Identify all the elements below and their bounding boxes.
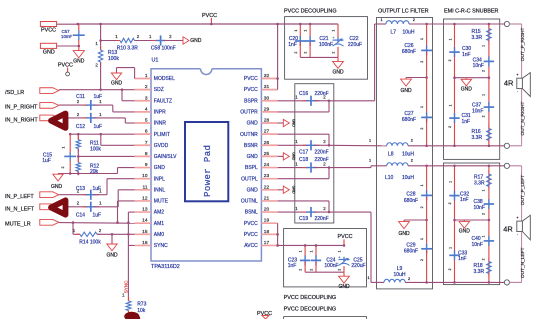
svg-text:3.3R: 3.3R <box>472 35 483 41</box>
svg-text:C58 100nF: C58 100nF <box>151 46 176 52</box>
svg-text:OUT_N_RIGHT: OUT_N_RIGHT <box>520 102 526 136</box>
svg-text:1: 1 <box>62 147 66 149</box>
svg-text:OUT_P_RIGHT: OUT_P_RIGHT <box>520 28 526 62</box>
svg-text:R14 100k: R14 100k <box>79 240 101 246</box>
svg-text:PVCC: PVCC <box>244 232 258 238</box>
svg-text:/SD_LR: /SD_LR <box>5 90 24 96</box>
svg-text:GND: GND <box>51 184 63 190</box>
svg-text:680nF: 680nF <box>404 249 418 255</box>
svg-text:100k: 100k <box>90 146 101 152</box>
svg-text:PVCC: PVCC <box>244 87 258 93</box>
svg-text:R73: R73 <box>137 302 146 308</box>
svg-text:1: 1 <box>482 94 486 96</box>
svg-text:1uF: 1uF <box>93 94 102 100</box>
svg-text:2: 2 <box>420 259 424 261</box>
svg-text:C27: C27 <box>404 111 413 117</box>
svg-text:BSNR: BSNR <box>244 143 258 149</box>
svg-text:GND: GND <box>332 69 344 75</box>
svg-text:680nF: 680nF <box>402 117 416 123</box>
svg-text:2: 2 <box>482 258 486 260</box>
svg-text:6: 6 <box>145 129 148 135</box>
svg-text:28: 28 <box>264 118 270 124</box>
svg-text:31: 31 <box>264 84 270 90</box>
svg-text:OUT_N_LEFT: OUT_N_LEFT <box>520 247 526 278</box>
svg-text:2: 2 <box>448 268 452 270</box>
svg-text:C14: C14 <box>76 212 85 218</box>
svg-text:29: 29 <box>264 106 270 112</box>
svg-text:2: 2 <box>448 59 452 61</box>
svg-text:OUTNL: OUTNL <box>241 199 258 205</box>
svg-text:1: 1 <box>381 18 383 22</box>
svg-text:20k: 20k <box>90 169 99 175</box>
svg-text:C18: C18 <box>299 157 308 163</box>
svg-text:1: 1 <box>482 45 486 47</box>
svg-text:GND: GND <box>247 154 259 160</box>
svg-text:AM1: AM1 <box>154 221 165 227</box>
svg-text:SYNC: SYNC <box>154 243 168 249</box>
svg-text:1: 1 <box>299 250 303 252</box>
svg-text:22: 22 <box>264 184 270 190</box>
svg-text:3.3R: 3.3R <box>472 135 483 141</box>
svg-text:220nF: 220nF <box>315 150 329 156</box>
svg-text:1: 1 <box>304 30 308 32</box>
svg-text:2: 2 <box>61 167 65 169</box>
svg-text:3: 3 <box>145 95 148 101</box>
svg-text:1nF: 1nF <box>462 119 471 125</box>
svg-text:1uF: 1uF <box>92 186 101 192</box>
svg-text:GND: GND <box>106 252 118 258</box>
svg-text:100k: 100k <box>108 56 119 62</box>
svg-text:10nF: 10nF <box>474 205 485 211</box>
svg-text:9: 9 <box>145 162 148 168</box>
svg-text:·: · <box>517 90 518 94</box>
svg-text:PVCC DECOUPLING: PVCC DECOUPLING <box>284 306 337 312</box>
svg-text:GVDD: GVDD <box>154 143 169 149</box>
svg-text:C28: C28 <box>406 192 415 198</box>
svg-text:1nF: 1nF <box>288 42 297 48</box>
svg-text:MUTE_LR: MUTE_LR <box>5 222 31 228</box>
svg-text:IN_N_LEFT: IN_N_LEFT <box>5 206 35 212</box>
svg-text:PVCC DECOUPLING: PVCC DECOUPLING <box>284 295 337 301</box>
svg-text:10uH: 10uH <box>403 29 415 35</box>
svg-text:2: 2 <box>482 115 486 117</box>
svg-text:BSPL: BSPL <box>245 165 258 171</box>
svg-text:680nF: 680nF <box>402 49 416 55</box>
svg-text:IN_P_RIGHT: IN_P_RIGHT <box>5 105 38 111</box>
svg-text:U1: U1 <box>152 58 159 64</box>
svg-text:10uH: 10uH <box>402 152 414 158</box>
svg-text:IN_P_LEFT: IN_P_LEFT <box>5 194 34 200</box>
svg-text:INNL: INNL <box>154 187 166 193</box>
svg-text:1: 1 <box>420 184 424 186</box>
svg-text:1: 1 <box>448 104 452 106</box>
svg-text:IN_N_RIGHT: IN_N_RIGHT <box>5 117 38 123</box>
svg-text:MODSEL: MODSEL <box>154 76 175 82</box>
svg-text:2: 2 <box>332 52 336 54</box>
svg-text:PVCC: PVCC <box>58 63 73 69</box>
svg-text:SDZ: SDZ <box>154 87 164 93</box>
svg-text:PVCC: PVCC <box>41 27 56 33</box>
svg-text:1: 1 <box>369 159 371 163</box>
svg-text:C11: C11 <box>76 94 85 100</box>
svg-text:OUT_P_LEFT: OUT_P_LEFT <box>520 175 526 205</box>
svg-text:1: 1 <box>420 106 424 108</box>
svg-text:GND: GND <box>292 186 296 194</box>
svg-text:L8: L8 <box>388 152 394 158</box>
svg-text:220uF: 220uF <box>351 263 365 269</box>
svg-text:2: 2 <box>411 138 413 142</box>
svg-text:SYNC: SYNC <box>124 280 129 293</box>
svg-text:2: 2 <box>448 126 452 128</box>
svg-text:INPL: INPL <box>154 176 165 182</box>
svg-text:7: 7 <box>145 140 148 146</box>
svg-text:GND: GND <box>292 119 296 127</box>
svg-text:23: 23 <box>264 173 270 179</box>
svg-text:2: 2 <box>294 52 298 54</box>
svg-text:L7: L7 <box>391 29 397 35</box>
svg-text:20: 20 <box>264 207 270 213</box>
svg-text:220nF: 220nF <box>315 157 329 163</box>
svg-text:1uF: 1uF <box>93 124 102 130</box>
svg-text:AM0: AM0 <box>154 232 165 238</box>
svg-text:OUTPUT LC FILTER: OUTPUT LC FILTER <box>378 9 429 15</box>
svg-text:17: 17 <box>264 240 270 246</box>
svg-text:OUTPR: OUTPR <box>240 109 258 115</box>
svg-text:1uF: 1uF <box>92 212 101 218</box>
svg-text:L10: L10 <box>385 175 394 181</box>
svg-text:2: 2 <box>299 269 303 271</box>
svg-text:2: 2 <box>420 61 424 63</box>
svg-text:PVCC: PVCC <box>244 76 258 82</box>
svg-text:2: 2 <box>482 213 486 215</box>
svg-text:BSNL: BSNL <box>245 210 258 216</box>
svg-text:2: 2 <box>145 84 148 90</box>
svg-text:11: 11 <box>143 184 148 190</box>
svg-text:10mF: 10mF <box>61 34 73 39</box>
svg-text:19: 19 <box>264 218 270 224</box>
svg-text:10nF: 10nF <box>472 108 483 114</box>
svg-text:220uF: 220uF <box>348 42 362 48</box>
svg-text:12: 12 <box>142 195 148 201</box>
svg-text:4R: 4R <box>503 225 512 234</box>
svg-text:2: 2 <box>413 18 415 22</box>
svg-text:25: 25 <box>264 151 270 157</box>
svg-text:C26: C26 <box>404 43 413 49</box>
svg-text:220nF: 220nF <box>315 216 329 222</box>
svg-text:10nF: 10nF <box>473 63 484 69</box>
svg-text:1nF: 1nF <box>288 263 297 269</box>
svg-text:OUTPL: OUTPL <box>241 176 258 182</box>
svg-text:10uH: 10uH <box>402 175 414 181</box>
svg-text:13: 13 <box>142 207 148 213</box>
svg-text:1: 1 <box>338 250 342 252</box>
svg-text:1nF: 1nF <box>460 197 469 203</box>
svg-text:1: 1 <box>145 73 148 79</box>
svg-text:1nF: 1nF <box>462 52 471 58</box>
svg-text:2: 2 <box>304 52 308 54</box>
svg-text:16: 16 <box>142 240 148 246</box>
svg-text:1nF: 1nF <box>458 256 467 262</box>
svg-text:1: 1 <box>369 138 371 142</box>
svg-text:220nF: 220nF <box>315 91 329 97</box>
svg-text:C16: C16 <box>299 91 308 97</box>
svg-text:GND: GND <box>398 231 410 237</box>
svg-text:680nF: 680nF <box>404 198 418 204</box>
svg-text:PVCC: PVCC <box>338 234 353 240</box>
svg-text:14: 14 <box>142 218 148 224</box>
svg-text:·: · <box>517 233 518 237</box>
svg-text:MUTE: MUTE <box>154 199 169 205</box>
svg-text:1: 1 <box>482 189 486 191</box>
svg-text:FAULTZ: FAULTZ <box>154 98 172 104</box>
svg-text:15: 15 <box>142 229 148 235</box>
svg-text:AM2: AM2 <box>154 210 165 216</box>
svg-text:OUTNR: OUTNR <box>240 132 258 138</box>
svg-text:INPR: INPR <box>154 109 166 115</box>
svg-text:100nF: 100nF <box>319 42 333 48</box>
svg-text:C29: C29 <box>406 242 415 248</box>
svg-text:8: 8 <box>145 151 148 157</box>
svg-text:4R: 4R <box>504 79 513 88</box>
svg-text:21: 21 <box>264 195 270 201</box>
svg-text:GND: GND <box>111 80 123 86</box>
svg-text:GND: GND <box>338 284 350 290</box>
svg-text:30: 30 <box>264 95 270 101</box>
svg-text:2: 2 <box>411 159 413 163</box>
svg-text:2: 2 <box>420 128 424 130</box>
svg-text:1: 1 <box>294 30 298 32</box>
svg-text:1: 1 <box>448 38 452 40</box>
svg-text:2: 2 <box>420 206 424 208</box>
svg-text:INNR: INNR <box>154 121 167 127</box>
svg-text:1: 1 <box>310 250 314 252</box>
svg-text:10nF: 10nF <box>472 242 483 248</box>
svg-text:10: 10 <box>142 173 148 179</box>
svg-text:100nF: 100nF <box>324 263 338 269</box>
svg-text:GND: GND <box>43 49 55 55</box>
svg-text:C19: C19 <box>299 216 308 222</box>
svg-text:PVCC: PVCC <box>244 221 258 227</box>
svg-text:32: 32 <box>264 73 270 79</box>
svg-text:2: 2 <box>448 202 452 204</box>
svg-text:GND: GND <box>247 121 259 127</box>
svg-text:3.3R: 3.3R <box>474 181 485 187</box>
svg-text:1: 1 <box>448 247 452 249</box>
svg-text:TPA3116D2: TPA3116D2 <box>151 264 180 270</box>
svg-text:PLIMIT: PLIMIT <box>154 132 170 138</box>
svg-text:C12: C12 <box>76 124 85 130</box>
svg-text:10uH: 10uH <box>394 272 406 278</box>
svg-text:1: 1 <box>332 30 336 32</box>
svg-text:1: 1 <box>482 235 486 237</box>
svg-text:1: 1 <box>448 181 452 183</box>
svg-text:2: 2 <box>482 70 486 72</box>
svg-text:GAIN/SLV: GAIN/SLV <box>154 154 177 160</box>
svg-text:PVCC: PVCC <box>202 13 217 19</box>
svg-text:BSPR: BSPR <box>244 98 258 104</box>
svg-text:2: 2 <box>310 269 314 271</box>
svg-text:GND: GND <box>459 229 471 235</box>
svg-text:EMI C-R-C SNUBBER: EMI C-R-C SNUBBER <box>444 9 498 15</box>
svg-text:GND: GND <box>190 38 202 44</box>
svg-text:1: 1 <box>367 276 369 280</box>
svg-text:AVCC: AVCC <box>244 243 258 249</box>
svg-text:C17: C17 <box>299 150 308 156</box>
svg-text:2: 2 <box>408 277 410 281</box>
svg-text:GND: GND <box>247 187 259 193</box>
svg-text:GND: GND <box>461 86 473 92</box>
svg-text:GND: GND <box>154 165 166 171</box>
svg-text:5: 5 <box>145 118 148 124</box>
svg-text:4: 4 <box>145 106 148 112</box>
svg-text:PVCC DECOUPLING: PVCC DECOUPLING <box>284 9 337 15</box>
svg-text:1: 1 <box>420 38 424 40</box>
svg-text:3.3R: 3.3R <box>474 269 485 275</box>
svg-text:C13: C13 <box>76 186 85 192</box>
svg-text:24: 24 <box>264 162 270 168</box>
svg-text:GND: GND <box>400 88 412 94</box>
svg-text:GND: GND <box>292 152 296 160</box>
svg-text:1: 1 <box>420 238 424 240</box>
svg-text:27: 27 <box>264 129 270 135</box>
svg-text:Power Pad: Power Pad <box>203 145 213 197</box>
svg-text:1uF: 1uF <box>42 158 51 164</box>
svg-text:GND: GND <box>73 59 85 65</box>
svg-text:R10 3.3R: R10 3.3R <box>117 46 139 52</box>
svg-text:26: 26 <box>264 140 270 146</box>
svg-text:18: 18 <box>264 229 270 235</box>
svg-text:10k: 10k <box>137 308 146 314</box>
